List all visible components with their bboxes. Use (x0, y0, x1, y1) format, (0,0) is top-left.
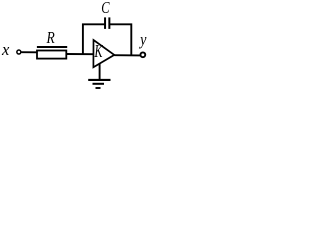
svg-text:x: x (1, 40, 10, 59)
svg-text:K: K (94, 43, 104, 62)
svg-text:R: R (46, 30, 55, 47)
svg-text:C: C (101, 0, 109, 18)
svg-text:y: y (138, 31, 146, 49)
